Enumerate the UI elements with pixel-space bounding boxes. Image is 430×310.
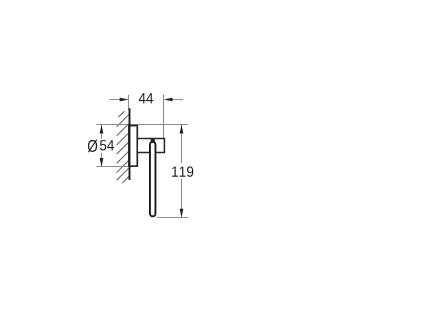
- 119 arrows: [180, 125, 184, 218]
- dimension line diameter 54: [101, 125, 103, 166]
- holder arm: [150, 142, 156, 217]
- mounting plate (side view): [129, 126, 137, 167]
- wall line: [129, 108, 131, 180]
- dimension 44 leader lines: [110, 99, 184, 101]
- wall hatching: [117, 111, 129, 183]
- dimension text diameter 54: [88, 140, 114, 153]
- diameter 54 arrows: [100, 125, 104, 167]
- extension line E5 (arm bottom, 119): [157, 217, 189, 219]
- holder bracket: [137, 139, 164, 153]
- dimension text 119: [172, 166, 193, 177]
- extension line 44 right: [163, 95, 165, 138]
- dimension line 119: [181, 125, 183, 217]
- pivot pin: [151, 139, 155, 143]
- extension line 44 left: [128, 95, 130, 110]
- dimension text 44: [139, 93, 153, 103]
- extension line E3 top (plate top / 119 top): [96, 124, 188, 126]
- extension line E4 (plate bottom, diameter 54): [96, 166, 130, 168]
- dimension 44 arrows: [120, 98, 173, 102]
